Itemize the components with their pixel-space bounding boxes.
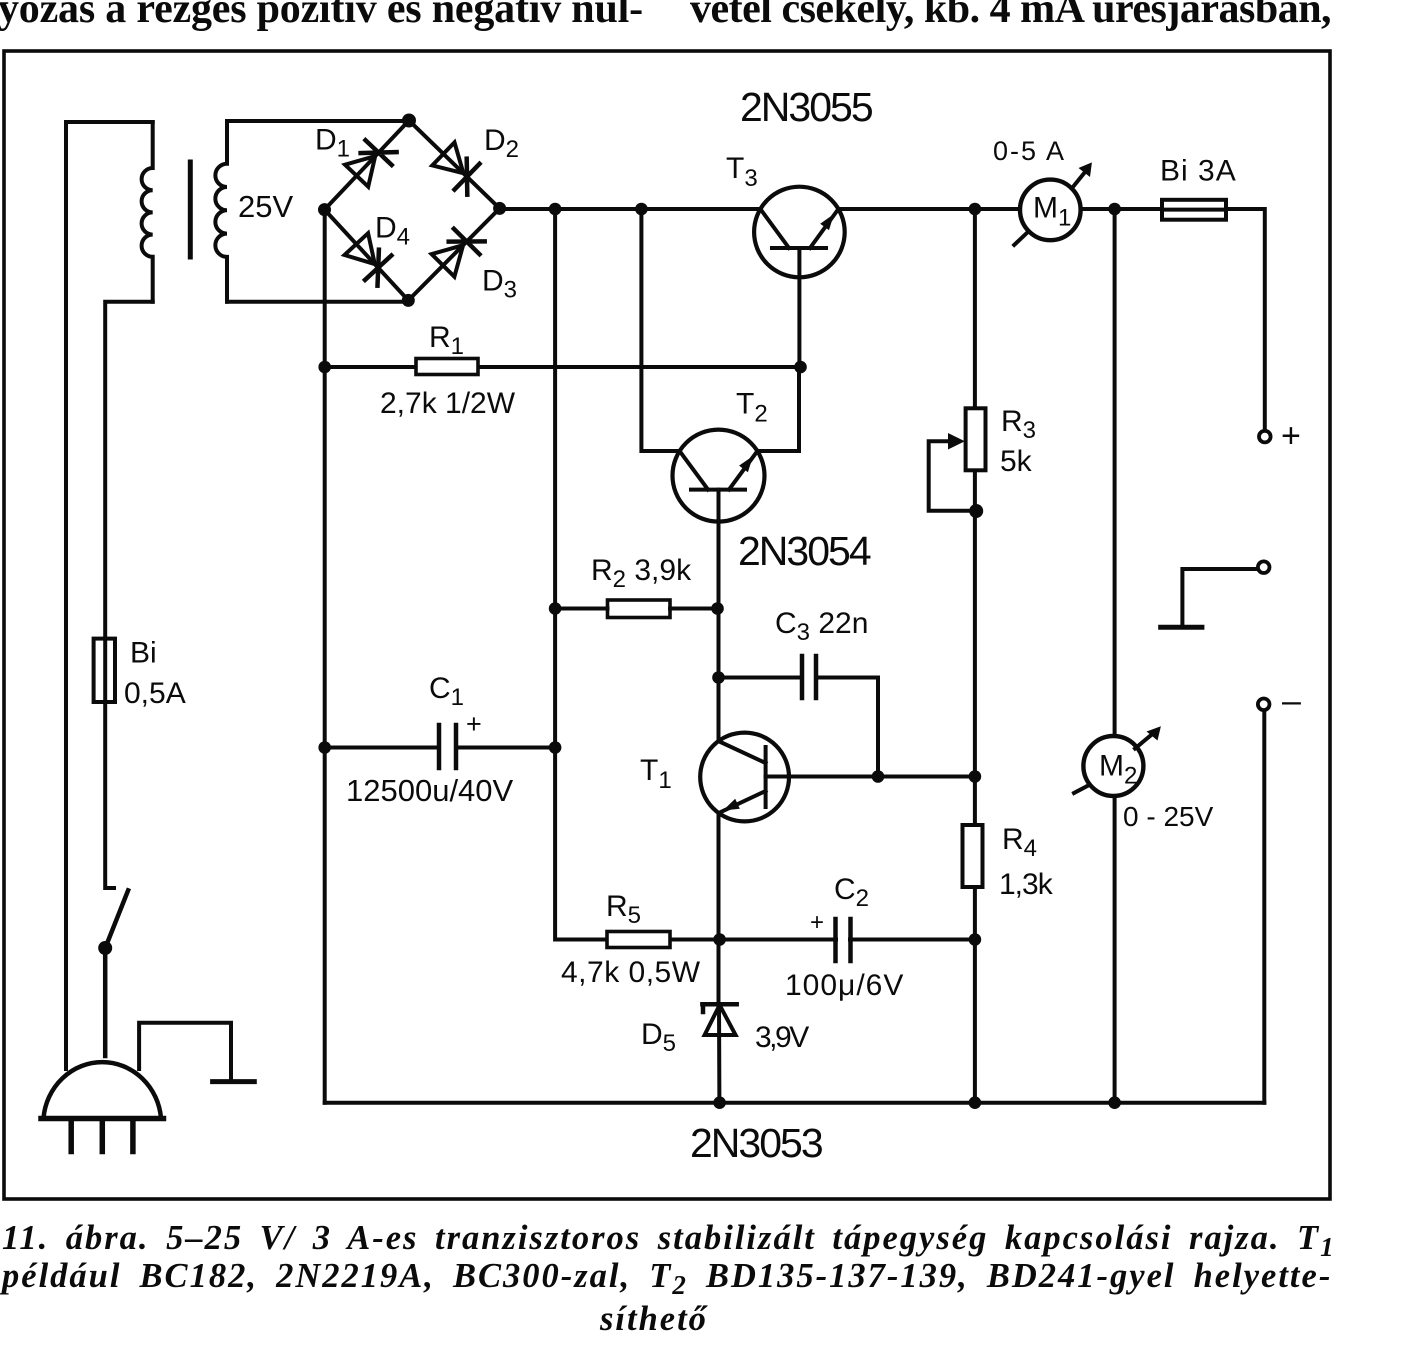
R3 wiper arm bbox=[929, 441, 975, 511]
transistor T1 2N3053 bbox=[700, 733, 789, 822]
svg-text:100μ/6V: 100μ/6V bbox=[785, 969, 904, 1002]
wire: ground terminal lead bbox=[1182, 569, 1257, 626]
wire: minus terminal to bottom rail bbox=[1262, 710, 1266, 1102]
svg-text:R2 3,9k: R2 3,9k bbox=[591, 554, 692, 593]
svg-text:2,7k 1/2W: 2,7k 1/2W bbox=[380, 387, 516, 420]
node: C3 right tap on base line bbox=[872, 770, 885, 783]
node: bottom rail at M2 bbox=[1108, 1096, 1121, 1109]
svg-text:2N3054: 2N3054 bbox=[738, 528, 871, 574]
wire: R3/R4 bus vertical bbox=[973, 209, 977, 1103]
svg-text:yozás a rezgés pozitív és nega: yozás a rezgés pozitív és negatív nul- bbox=[0, 0, 643, 32]
svg-text:2N3053: 2N3053 bbox=[690, 1120, 822, 1166]
node: top rail at M1 left bbox=[969, 203, 982, 216]
svg-text:0 - 25V: 0 - 25V bbox=[1123, 801, 1214, 832]
wire: secondary bottom to bridge bottom node bbox=[227, 300, 408, 304]
node: R1 left junction bbox=[318, 361, 331, 374]
svg-text:25V: 25V bbox=[238, 189, 293, 224]
wire: secondary top to bridge top node bbox=[227, 119, 409, 123]
diode D4 bbox=[345, 233, 392, 286]
svg-text:D4: D4 bbox=[375, 212, 410, 251]
svg-text:C1: C1 bbox=[429, 672, 464, 711]
transistor T2 2N3054 bbox=[673, 430, 765, 522]
terminal chassis/ground bbox=[1258, 561, 1270, 573]
fuse Bi 0,5A bbox=[94, 639, 115, 702]
transistor T3 2N3055 bbox=[754, 187, 845, 367]
wire: M2 branch vertical bbox=[1113, 209, 1117, 1103]
node: top rail x=555 bbox=[549, 203, 562, 216]
wire: R5/C2 line bbox=[670, 938, 975, 942]
wire: plug earth lead bbox=[139, 1023, 231, 1081]
node: bridge right bbox=[493, 202, 506, 215]
svg-text:síthető: síthető bbox=[599, 1300, 709, 1338]
wire: T2 collector from rail bbox=[641, 209, 679, 451]
svg-text:C3 22n: C3 22n bbox=[775, 607, 868, 646]
resistor R5 4,7k 0,5W bbox=[607, 932, 670, 948]
wire: C3 loop from T1 collector line to T1 base line bbox=[719, 678, 879, 777]
node: bottom rail at R4 bbox=[969, 1096, 982, 1109]
fuse Bi 3A bbox=[1162, 200, 1226, 220]
wire: T2 emitter to T3 base bbox=[757, 367, 799, 451]
wire: T2 base lead down to T1 collector bbox=[717, 490, 721, 741]
switch S blade bbox=[105, 890, 128, 1056]
svg-text:0,5A: 0,5A bbox=[124, 677, 186, 710]
svg-text:4,7k 0,5W: 4,7k 0,5W bbox=[561, 956, 701, 989]
bridge rectifier edges bbox=[325, 121, 500, 301]
node: top rail at M1 right bbox=[1108, 203, 1121, 216]
node: R1 right junction at T3 base lead bbox=[794, 361, 807, 374]
transformer secondary winding 25V bbox=[215, 121, 227, 302]
node: C3 left tap bbox=[712, 671, 725, 684]
svg-text:Bi 3A: Bi 3A bbox=[1160, 155, 1237, 188]
capacitor C1 12500u/40V bbox=[439, 725, 456, 768]
svg-text:0-5 A: 0-5 A bbox=[993, 136, 1066, 166]
wire: rail drop x=555 to R5 bbox=[555, 209, 607, 940]
ground at plug bbox=[213, 1079, 255, 1084]
svg-text:5k: 5k bbox=[1000, 445, 1033, 478]
wire: C1 leads bbox=[325, 746, 555, 750]
plug prong 1 bbox=[68, 1121, 74, 1152]
svg-text:R1: R1 bbox=[429, 321, 464, 360]
svg-text:T1: T1 bbox=[640, 754, 672, 794]
wire: T1 base line to R3/R4 bus bbox=[766, 775, 975, 779]
node: T1 base line end bbox=[969, 770, 982, 783]
node: bridge top bbox=[402, 114, 416, 128]
svg-text:3,9V: 3,9V bbox=[755, 1021, 809, 1054]
node: bridge left bbox=[318, 203, 331, 216]
node: R5 right / T1 emitter bbox=[713, 933, 726, 946]
wire: negative bus vertical from bridge left node bbox=[323, 210, 327, 1103]
svg-text:–: – bbox=[1282, 682, 1301, 720]
node: bottom rail at D5 bbox=[713, 1096, 726, 1109]
plug prong 2 bbox=[100, 1121, 106, 1152]
svg-text:1,3k: 1,3k bbox=[999, 868, 1054, 901]
svg-text:12500u/40V: 12500u/40V bbox=[346, 773, 514, 808]
wire: positive top rail bbox=[500, 209, 1265, 431]
svg-text:+: + bbox=[1281, 417, 1301, 455]
zener diode D5 3,9V bbox=[702, 1004, 736, 1035]
wire: R2 leads bbox=[555, 607, 717, 611]
wire: bottom rail bbox=[325, 1101, 1265, 1105]
resistor R1 2,7k 1/2W bbox=[416, 359, 478, 375]
node: bridge bottom bbox=[402, 294, 415, 307]
svg-text:R3: R3 bbox=[1001, 405, 1036, 444]
transformer core bbox=[188, 162, 193, 257]
diode D3 bbox=[432, 229, 485, 277]
svg-text:D1: D1 bbox=[315, 124, 350, 163]
terminal - output bbox=[1258, 699, 1270, 711]
meter M1 0-5A bbox=[1014, 162, 1092, 245]
svg-text:11. ábra. 5–25 V/ 3 A-es tranz: 11. ábra. 5–25 V/ 3 A-es tranzisztoros s… bbox=[2, 1219, 1336, 1262]
resistor R2 3,9k bbox=[608, 600, 671, 618]
ground bar at output bbox=[1161, 625, 1202, 630]
diode D2 bbox=[432, 142, 479, 194]
node: C1 right bbox=[549, 741, 562, 754]
transformer primary winding bbox=[142, 122, 153, 302]
node: R2 right bbox=[711, 602, 724, 615]
svg-text:R4: R4 bbox=[1002, 823, 1037, 862]
wire: primary bottom to switch bbox=[105, 302, 153, 888]
wire: mains left conductor bbox=[66, 122, 153, 1069]
svg-text:T3: T3 bbox=[726, 152, 758, 192]
svg-text:D2: D2 bbox=[484, 124, 519, 163]
svg-text:C2: C2 bbox=[834, 873, 869, 912]
svg-text:+: + bbox=[466, 709, 482, 739]
mains plug body bbox=[44, 1062, 162, 1118]
plug prong 3 bbox=[130, 1121, 136, 1152]
svg-text:T2: T2 bbox=[736, 388, 768, 428]
wire: T1 emitter down through D5 to bottom rail bbox=[717, 813, 722, 1103]
svg-text:R5: R5 bbox=[606, 890, 641, 929]
diode D1 bbox=[345, 140, 397, 187]
svg-text:2N3055: 2N3055 bbox=[740, 84, 873, 130]
meter M2 0-25V bbox=[1074, 726, 1161, 796]
svg-text:például BC182, 2N2219A, BC300-: például BC182, 2N2219A, BC300-zal, T2 BD… bbox=[0, 1257, 1332, 1300]
node: top rail x=641 bbox=[635, 203, 648, 216]
svg-text:D5: D5 bbox=[641, 1018, 676, 1057]
svg-text:D3: D3 bbox=[482, 265, 517, 304]
terminal + output bbox=[1259, 431, 1271, 443]
node: R2 left bbox=[549, 602, 562, 615]
svg-text:vétel csekély, kb. 4 mA üresjá: vétel csekély, kb. 4 mA üresjárásban, bbox=[690, 0, 1331, 32]
potentiometer R3 5k bbox=[966, 408, 986, 470]
node: C2 right bbox=[969, 933, 982, 946]
capacitor C2 100u/6V bbox=[836, 919, 851, 961]
switch junction dot bbox=[98, 941, 112, 955]
svg-text:Bi: Bi bbox=[130, 637, 157, 670]
wire: R1 line bbox=[325, 365, 801, 369]
capacitor C3 22n bbox=[802, 656, 816, 698]
svg-text:+: + bbox=[810, 909, 824, 936]
node: R3 wiper tie bbox=[969, 504, 983, 518]
node: C1 left bbox=[318, 741, 331, 754]
resistor R4 1,3k bbox=[963, 825, 983, 887]
